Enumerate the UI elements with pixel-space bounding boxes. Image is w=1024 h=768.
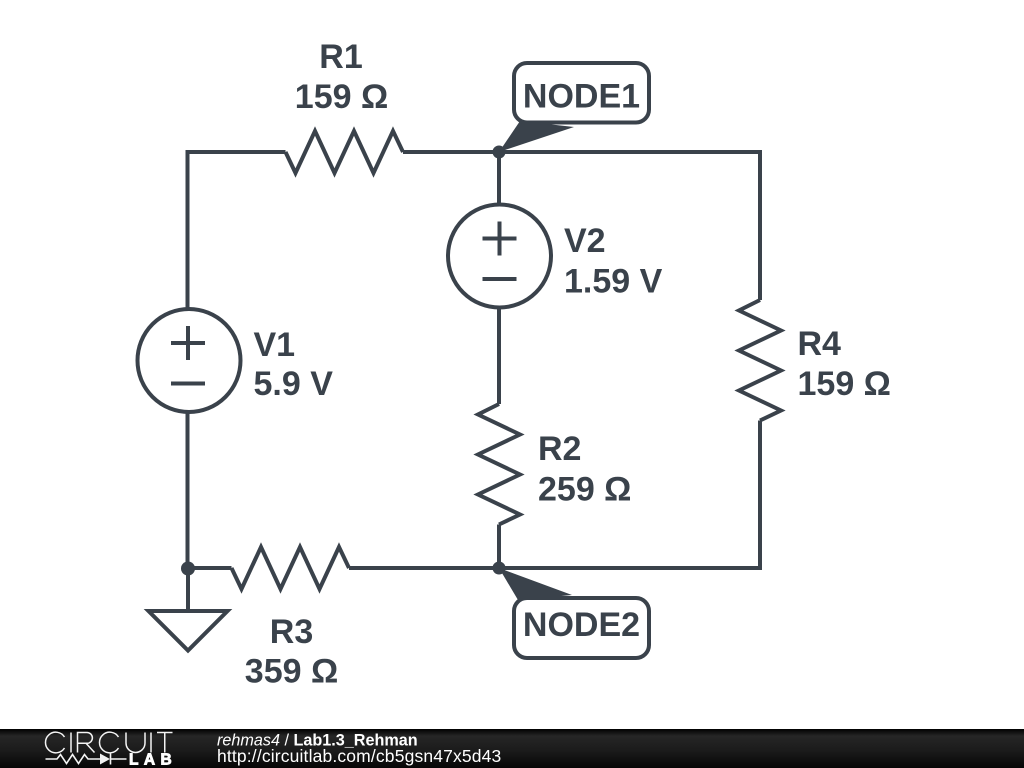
wire right side down from R4 to bottom wire to NODE2 <box>499 421 760 569</box>
CircuitLab logo CIRCUIT letters <box>45 732 172 753</box>
wire R3 to node <box>349 566 499 570</box>
svg-text:159 Ω: 159 Ω <box>295 78 388 116</box>
V2 plus sign <box>483 222 517 256</box>
wire R2 bottom to node <box>497 525 501 569</box>
voltage source V2 <box>448 205 551 308</box>
svg-text:5.9 V: 5.9 V <box>254 365 334 403</box>
svg-text:R1: R1 <box>319 38 362 76</box>
ground symbol <box>149 611 228 651</box>
V2 minus sign <box>483 277 517 281</box>
resistor R2 <box>478 404 520 525</box>
resistor R1 <box>286 131 404 173</box>
svg-text:NODE2: NODE2 <box>523 606 640 644</box>
logo resistor-diode squiggle <box>46 754 127 765</box>
svg-text:1.59 V: 1.59 V <box>564 263 663 301</box>
svg-text:LAB: LAB <box>129 752 177 768</box>
NODE2 pointer wedge <box>499 568 572 600</box>
svg-text:NODE1: NODE1 <box>523 78 640 116</box>
resistor R4 <box>739 300 781 421</box>
V1 plus sign <box>171 326 205 360</box>
node NODE1 junction dot <box>493 146 506 159</box>
resistor R3 <box>232 547 350 589</box>
voltage source V1 <box>138 309 241 412</box>
wire from R1 to top-right corner and down to R4 <box>403 152 760 300</box>
node NODE2 junction dot <box>493 562 506 575</box>
svg-text:R3: R3 <box>270 613 313 651</box>
NODE1 flag box <box>514 63 649 123</box>
ground wire stub <box>186 568 190 611</box>
wire node to V2 top <box>497 152 501 206</box>
wire top-left from corner to R1 and down to V1 <box>188 152 286 310</box>
wire V1 to ground junction and right to R3 <box>188 410 232 568</box>
V1 minus sign <box>171 382 205 386</box>
NODE1 pointer wedge <box>499 121 574 152</box>
svg-text:http://circuitlab.com/cb5gsn47: http://circuitlab.com/cb5gsn47x5d43 <box>217 746 501 766</box>
svg-text:359 Ω: 359 Ω <box>245 653 338 691</box>
NODE2 flag box <box>514 598 649 658</box>
svg-text:R4: R4 <box>798 325 842 363</box>
svg-text:V1: V1 <box>254 326 296 364</box>
svg-text:R2: R2 <box>538 430 581 468</box>
svg-text:259 Ω: 259 Ω <box>538 471 631 509</box>
svg-text:159 Ω: 159 Ω <box>798 365 891 403</box>
logo diode triangle <box>100 754 110 765</box>
svg-text:V2: V2 <box>564 222 606 260</box>
wire V2 bottom to R2 <box>497 307 501 404</box>
junction dot at V1/ground/R3 <box>181 562 195 576</box>
